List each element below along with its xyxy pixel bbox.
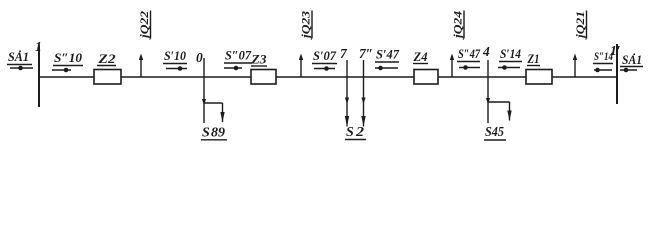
flow label S'10 with arrow <box>163 49 187 71</box>
load arrow at node 0 <box>220 112 224 122</box>
flow label S'47 with left arrow <box>375 48 400 71</box>
svg-text:jQ24: jQ24 <box>451 11 465 40</box>
svg-text:SA1: SA1 <box>622 53 642 67</box>
svg-text:SA1: SA1 <box>8 50 29 64</box>
label Z3 <box>250 53 267 67</box>
node 1 left busbar <box>38 45 40 107</box>
svg-text:S: S <box>202 126 210 141</box>
svg-text:Z2: Z2 <box>97 52 115 66</box>
svg-text:S45: S45 <box>485 125 504 140</box>
load arrow small at node 0 jog <box>202 99 206 105</box>
node 7 load drop wire <box>346 60 348 127</box>
flow label S"07 with arrow <box>224 49 252 71</box>
flow label S"14 with left arrow <box>593 49 613 72</box>
flow label S"10 with arrow <box>52 51 83 72</box>
flow label SA1 right with left arrow <box>620 53 643 72</box>
svg-text:S″07: S″07 <box>225 49 252 63</box>
load arrows node 7 <box>345 98 349 105</box>
load arrows node 7" <box>361 98 365 105</box>
svg-text:Z1: Z1 <box>527 52 540 66</box>
node 4 load drop wire <box>488 60 510 123</box>
svg-text:jQ22: jQ22 <box>137 11 151 40</box>
load arrow at node 4 <box>507 111 511 121</box>
svg-text:1: 1 <box>35 39 42 54</box>
flow label SA1 left with arrow <box>7 50 33 70</box>
svg-text:jQ21: jQ21 <box>573 11 587 40</box>
svg-text:0: 0 <box>196 50 203 65</box>
svg-text:S′47: S′47 <box>376 48 400 62</box>
svg-text:2: 2 <box>355 125 364 140</box>
svg-text:89: 89 <box>211 126 225 141</box>
svg-text:7″: 7″ <box>359 46 373 61</box>
node 0 load drop wire <box>204 58 223 123</box>
label Z4 <box>412 50 428 64</box>
svg-text:S′07: S′07 <box>313 49 337 63</box>
shunt jQ22 with up arrow <box>137 11 151 78</box>
node 1' right busbar <box>616 44 618 104</box>
shunt jQ23 with up arrow <box>299 11 313 78</box>
shunt jQ24 with up arrow <box>450 11 465 78</box>
shunt jQ21 with up arrow <box>573 11 587 78</box>
impedance Z1 <box>526 70 552 85</box>
svg-text:S″47: S″47 <box>458 47 481 61</box>
wire main bus 1 to 1' <box>39 76 617 78</box>
impedance Z4 <box>414 70 438 85</box>
node 7" load drop wire <box>363 60 365 127</box>
load label S2 <box>345 125 366 140</box>
label Z2 <box>97 52 116 66</box>
svg-text:S′10: S′10 <box>164 49 187 63</box>
svg-text:1′: 1′ <box>610 43 621 58</box>
svg-text:jQ23: jQ23 <box>299 11 313 40</box>
flow label S'14 with left arrow <box>498 47 522 70</box>
impedance Z3 <box>251 70 276 85</box>
flow label S'07 with arrow <box>312 49 337 71</box>
label Z1 <box>527 52 540 66</box>
flow label S"47 with left arrow <box>457 47 481 70</box>
svg-text:Z4: Z4 <box>412 50 427 64</box>
svg-text:S′14: S′14 <box>500 47 521 61</box>
load arrow small at node 4 jog <box>486 98 490 104</box>
load label S89 <box>201 126 227 141</box>
svg-text:Z3: Z3 <box>250 53 266 67</box>
svg-text:4: 4 <box>482 44 490 59</box>
impedance Z2 <box>94 70 121 85</box>
load label S45 <box>484 125 506 140</box>
svg-text:S: S <box>346 125 354 140</box>
svg-text:S″10: S″10 <box>54 51 83 65</box>
